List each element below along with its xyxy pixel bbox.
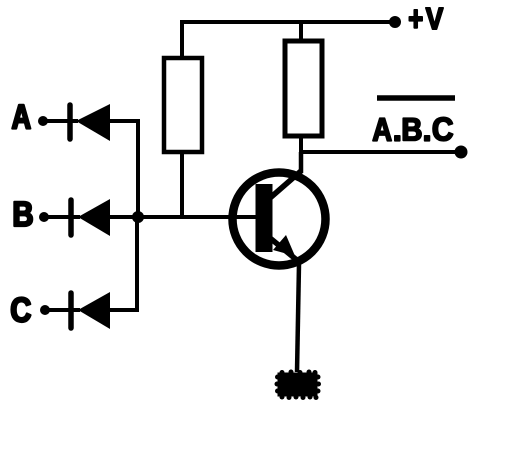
diode D3 triangle (78, 292, 110, 329)
resistor R1 (164, 58, 202, 152)
wire diode D3 up to junction (110, 217, 137, 310)
transistor Q1 emitter stroke (270, 238, 298, 261)
transistor Q1 base bar (256, 184, 273, 252)
wire collector lead from node into transistor (299, 152, 304, 173)
resistor R2 (285, 41, 322, 136)
wire emitter to ground (297, 264, 299, 372)
node +V terminal dot (389, 16, 401, 28)
node input A terminal dot (38, 116, 48, 126)
node diode junction dot (132, 211, 144, 223)
transistor Q1 collector stroke (270, 171, 301, 198)
label A.B.C (373, 117, 453, 140)
node output terminal dot (455, 146, 468, 159)
ground symbol (275, 370, 322, 401)
wire top rail from R1 to +V (180, 20, 395, 24)
node input C terminal dot (40, 305, 50, 315)
label overline of A.B.C (377, 95, 455, 101)
label A (12, 105, 30, 129)
transistor Q1 body circle (233, 173, 326, 266)
transistor Q1 emitter arrowhead (273, 235, 295, 256)
wire R1 bottom lead to base line (180, 152, 184, 218)
wire input C to diode D3 (45, 308, 80, 312)
wire R2 top lead (299, 22, 303, 41)
diode D3 cathode bar (68, 293, 74, 328)
wire output line to terminal (301, 150, 461, 154)
diode D2 triangle (78, 199, 110, 236)
wire input A to diode D1 (43, 119, 78, 123)
wire R1 top lead (180, 22, 184, 58)
label +V (409, 8, 443, 29)
diode D1 triangle (76, 104, 110, 141)
node input B terminal dot (39, 212, 49, 222)
label B (14, 202, 32, 226)
wire R2 bottom lead to collector node (299, 136, 303, 152)
label C (12, 297, 31, 322)
diode D1 cathode bar (67, 105, 73, 139)
wire input B to diode D2 (44, 215, 80, 219)
wire base line from diode D2 to transistor base (110, 215, 256, 219)
wire diode D1 to junction (110, 121, 138, 218)
diode D2 cathode bar (68, 200, 74, 235)
